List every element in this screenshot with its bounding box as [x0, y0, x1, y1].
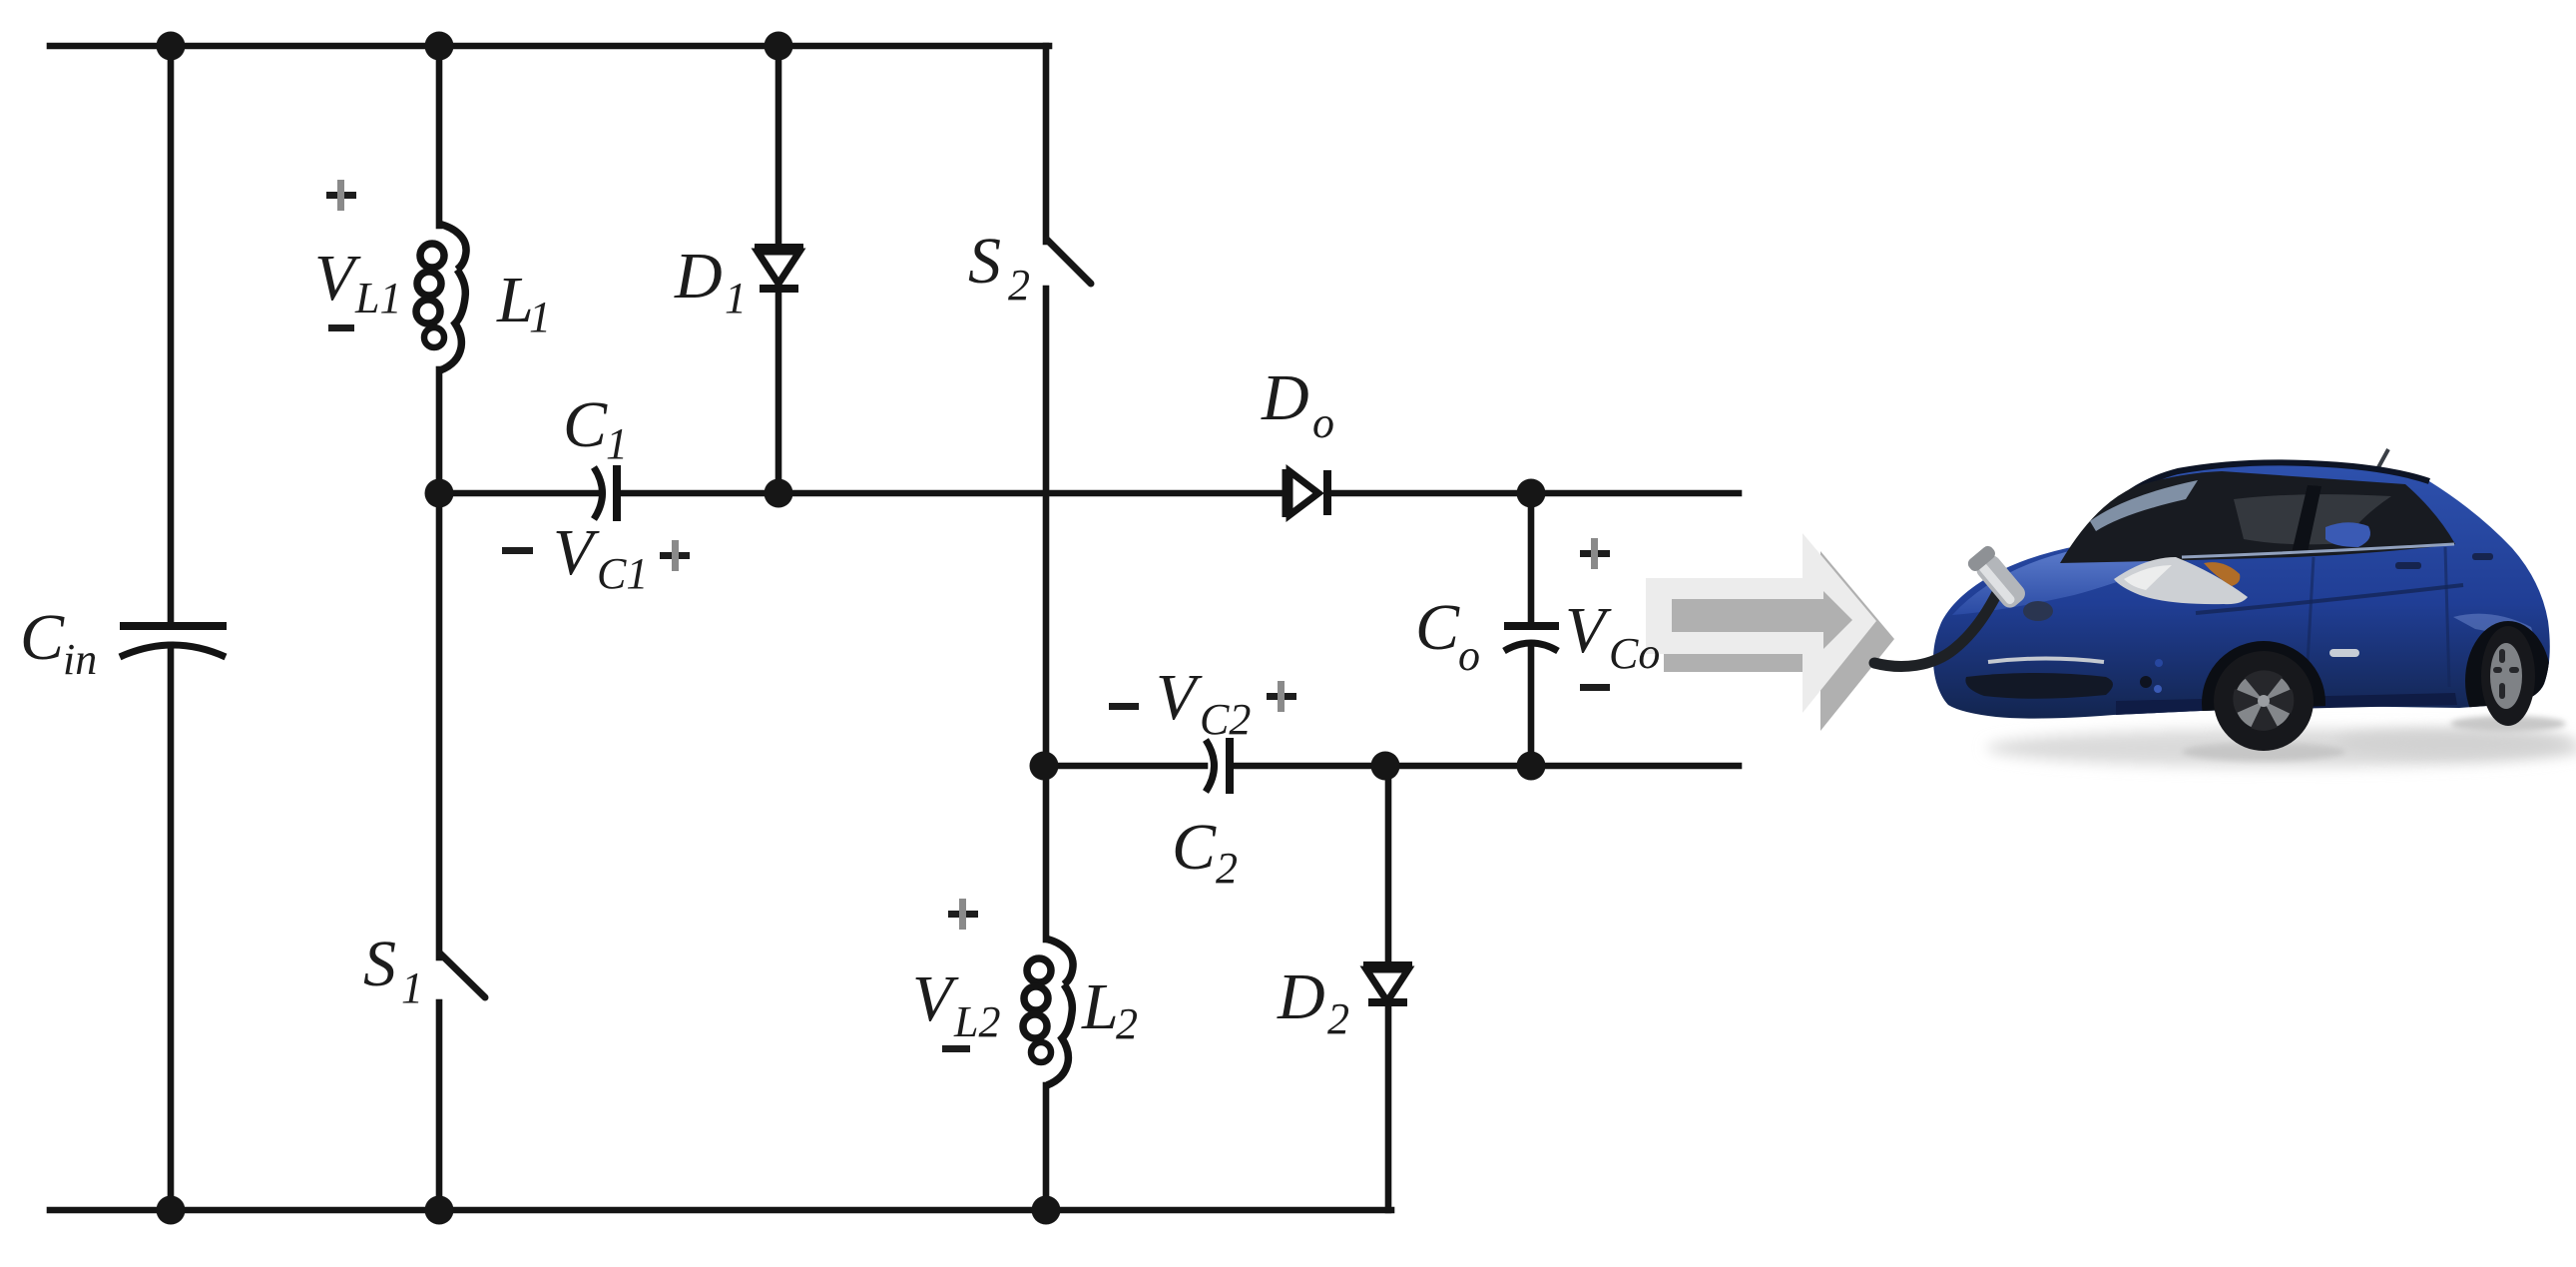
wire D1 branch — [775, 46, 782, 244]
svg-text:D: D — [674, 240, 723, 313]
svg-text:2: 2 — [1116, 999, 1138, 1048]
capacitor Co symbol — [1504, 626, 1559, 651]
svg-text:C: C — [1172, 811, 1217, 884]
svg-text:L1: L1 — [354, 274, 401, 322]
node dot bottom rail at L2 — [1032, 1196, 1061, 1225]
B pillar — [2292, 485, 2321, 553]
mirror — [2325, 522, 2370, 547]
grille chrome strip — [1988, 659, 2104, 663]
switch S1 blade — [440, 953, 485, 997]
capacitor C1 symbol — [594, 465, 617, 521]
label VC1 — [553, 516, 648, 598]
node dot mid rail at D1 — [765, 479, 793, 508]
svg-text:V: V — [553, 516, 600, 589]
fog dot — [2140, 676, 2152, 688]
node dot top rail at L1 — [425, 32, 454, 61]
diode Do — [1286, 469, 1327, 517]
wire lower rail left of C2 — [1044, 763, 1205, 770]
svg-text:L2: L2 — [953, 997, 1000, 1046]
svg-text:o: o — [1458, 631, 1480, 680]
label plus VC2 — [1267, 681, 1296, 712]
charge port dark — [2023, 601, 2053, 621]
wire D2 branch lower — [1385, 1006, 1392, 1210]
wire top bus — [50, 43, 1049, 50]
wire L2 upper lead — [1043, 766, 1050, 940]
wire L1 to C1 node — [436, 369, 443, 493]
label Do — [1261, 361, 1334, 447]
svg-text:1: 1 — [529, 293, 551, 341]
label minus VC1 — [502, 547, 533, 554]
grille dark intake — [1965, 673, 2113, 699]
node dot mid rail at Co top — [1517, 479, 1546, 508]
wire S1 branch lower — [436, 1002, 443, 1210]
front wheel arch — [2202, 641, 2325, 765]
headlight — [2114, 557, 2248, 604]
svg-text:2: 2 — [1327, 994, 1349, 1043]
svg-text:in: in — [63, 635, 97, 684]
wire bottom bus — [50, 1207, 1391, 1214]
door handles — [2395, 562, 2421, 569]
wire left input rail lower — [168, 645, 175, 1210]
node dot bottom rail at S1 — [425, 1196, 454, 1225]
badge — [2329, 649, 2359, 657]
rocker dark — [2116, 693, 2457, 715]
side glass inner shade — [2234, 494, 2391, 544]
wire L1 branch upper — [436, 46, 443, 226]
node dot top rail at input — [157, 32, 186, 61]
label plus VC1 — [660, 540, 690, 571]
label VCo — [1565, 594, 1660, 678]
label minus VL1 — [328, 324, 354, 331]
wire D2 branch — [1385, 766, 1392, 961]
capacitor Cin symbol — [120, 626, 227, 657]
svg-text:o: o — [1312, 398, 1334, 447]
svg-text:1: 1 — [725, 274, 747, 322]
wire L2 lower lead — [1043, 1085, 1050, 1210]
svg-text:V: V — [314, 242, 361, 315]
rear wheel arch — [2465, 621, 2551, 741]
node dot mid rail at L1/C1 — [425, 479, 454, 508]
charge nozzle — [1965, 543, 2030, 612]
svg-text:1: 1 — [401, 963, 423, 1012]
door creases — [2196, 585, 2463, 613]
svg-text:1: 1 — [606, 419, 628, 468]
label VC2 — [1156, 661, 1251, 744]
svg-text:V: V — [1565, 594, 1612, 667]
arrow to EV load (light face) — [1646, 533, 1876, 713]
label VL1 — [314, 242, 401, 322]
wire mid rail C1 to Do — [620, 490, 1284, 497]
rear quarter highlight — [2453, 614, 2535, 657]
node dot bottom rail at input — [157, 1196, 186, 1225]
svg-text:Co: Co — [1609, 629, 1660, 678]
wire mid rail Do to output — [1330, 490, 1739, 497]
hood highlight — [1952, 547, 2186, 615]
arrow to EV load (inner dart) — [1672, 591, 1852, 649]
svg-text:C: C — [1415, 591, 1460, 664]
label plus VCo — [1580, 538, 1610, 569]
label Co — [1415, 591, 1480, 680]
svg-text:C2: C2 — [1200, 695, 1251, 744]
svg-text:2: 2 — [1008, 261, 1030, 310]
svg-text:C: C — [20, 601, 65, 674]
svg-text:C: C — [563, 388, 608, 461]
capacitor C2 symbol — [1206, 738, 1230, 794]
body — [1933, 462, 2550, 718]
label minus VL2 — [942, 1045, 970, 1052]
wire lower rail C2 to output — [1235, 763, 1739, 770]
wire Co lower lead — [1528, 644, 1535, 766]
svg-text:C1: C1 — [597, 549, 648, 598]
inductor L1 coil — [416, 224, 466, 370]
diode D1 — [755, 248, 803, 289]
antenna — [2377, 449, 2388, 469]
label C2 — [1172, 811, 1238, 893]
label S2 — [968, 225, 1030, 310]
switch S2 blade — [1047, 240, 1091, 284]
roof dark edge — [2082, 462, 2429, 544]
label VL2 — [912, 962, 1000, 1046]
wire D1 branch lower — [775, 292, 782, 493]
node dot lower rail at Co bottom — [1517, 752, 1546, 781]
wire S1 branch upper — [436, 493, 443, 957]
label S1 — [363, 928, 423, 1012]
front tire — [2214, 651, 2314, 751]
arrow to EV load (shadow) — [1664, 551, 1894, 731]
diode D2 — [1363, 965, 1412, 1002]
bumper dot — [2154, 685, 2162, 693]
label minus VCo — [1580, 684, 1610, 691]
windshield streak — [2090, 480, 2198, 531]
svg-text:V: V — [1156, 661, 1203, 734]
svg-text:2: 2 — [1216, 844, 1238, 893]
svg-text:D: D — [1277, 960, 1325, 1033]
label L2 — [1081, 970, 1138, 1048]
label plus VL2 — [948, 899, 978, 930]
svg-text:S: S — [968, 225, 1001, 298]
node dot lower rail at D2 — [1371, 752, 1400, 781]
inductor L2 coil — [1023, 939, 1073, 1085]
label C1 — [563, 388, 628, 468]
node dot lower rail at L2 — [1030, 752, 1059, 781]
svg-text:D: D — [1261, 361, 1309, 434]
svg-text:L: L — [1081, 970, 1119, 1043]
belt line chrome — [2182, 544, 2454, 557]
rear tire — [2481, 626, 2535, 726]
wire S2 branch lower — [1043, 289, 1050, 766]
wire S2 branch upper — [1043, 46, 1050, 242]
label Cin — [20, 601, 97, 684]
label D2 — [1277, 960, 1349, 1043]
wire mid rail left of C1 — [439, 490, 596, 497]
wire Co upper lead — [1528, 493, 1535, 622]
EV car illustration — [1874, 449, 2576, 767]
label minus VC2 — [1109, 703, 1139, 710]
svg-text:V: V — [912, 962, 959, 1035]
glasshouse — [2060, 471, 2455, 563]
svg-text:S: S — [363, 928, 396, 1000]
charging cable — [1874, 591, 1998, 666]
node dot top rail at D1 — [765, 32, 793, 61]
label D1 — [674, 240, 747, 322]
label plus VL1 — [326, 180, 356, 211]
wire left input rail — [168, 46, 175, 623]
label L1 — [496, 264, 551, 341]
